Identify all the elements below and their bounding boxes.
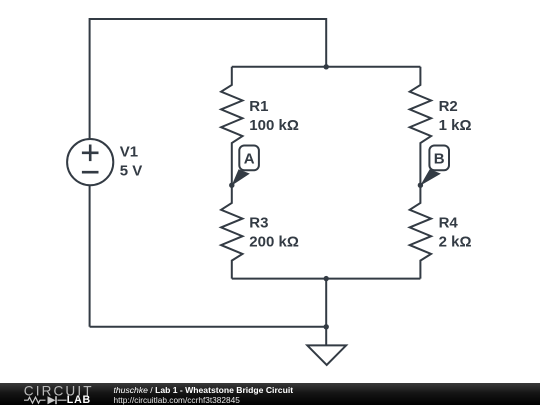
svg-text:R4: R4 [439,215,459,232]
resistor R1 [221,67,242,185]
svg-text:5 V: 5 V [120,163,143,180]
ground [307,345,346,365]
svg-text:200 kΩ: 200 kΩ [249,234,299,251]
node B dot [418,183,423,188]
logo diode [48,396,56,404]
node A pointer beak [232,169,250,185]
logo zigzag wire [24,397,67,403]
node B box [429,146,449,171]
svg-text:A: A [244,150,255,167]
node A dot [229,183,234,188]
svg-text:100 kΩ: 100 kΩ [249,117,299,134]
CircuitLab logo [0,383,110,405]
svg-text:R2: R2 [439,98,458,115]
svg-text:2 kΩ: 2 kΩ [439,234,472,251]
svg-text:R1: R1 [249,98,268,115]
resistor R2 [410,67,431,185]
resistor R4 [410,185,431,278]
svg-text:V1: V1 [120,144,138,161]
wire top rail [90,19,327,138]
V1 minus sign [82,171,99,174]
node dot ground [324,324,329,329]
wire bridge bottom rail [232,278,421,280]
voltage source V1 [67,139,113,185]
footer bar [0,383,540,405]
node dot bottom mid [324,276,329,281]
V1 plus sign [82,145,99,173]
node B pointer beak [420,169,441,185]
node A box [239,146,259,171]
node dot top [324,64,329,69]
resistor R3 [221,185,242,278]
wire bridge top rail [232,66,421,68]
svg-text:1 kΩ: 1 kΩ [439,117,472,134]
svg-text:B: B [434,150,445,167]
svg-text:LAB: LAB [67,394,91,405]
wire bottom rail [90,326,327,328]
svg-text:R3: R3 [249,215,268,232]
wire left rail lower [89,186,91,327]
wire ground stem [325,279,327,346]
